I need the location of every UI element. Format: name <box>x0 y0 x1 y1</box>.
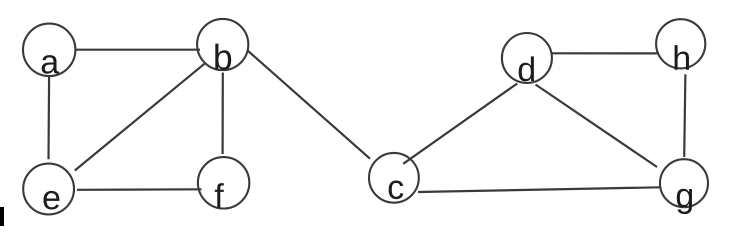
wire e-f <box>77 188 202 191</box>
black bar bottom-left <box>0 207 4 226</box>
node d <box>502 33 552 83</box>
node a <box>23 24 75 76</box>
wire b-f <box>222 73 224 155</box>
node h <box>656 19 705 70</box>
node b <box>197 19 248 70</box>
node c <box>369 153 419 203</box>
node e <box>23 164 74 215</box>
wire c-d <box>403 84 517 164</box>
wire c-g <box>418 187 660 192</box>
node g <box>660 159 708 214</box>
wire d-g <box>536 85 658 168</box>
wire b-c <box>247 50 370 159</box>
wire h-g <box>684 74 685 157</box>
wire b-e <box>75 63 205 170</box>
wire d-h <box>552 52 660 54</box>
wire a-e <box>47 76 50 160</box>
node f <box>198 157 249 208</box>
wire a-b <box>75 49 200 51</box>
